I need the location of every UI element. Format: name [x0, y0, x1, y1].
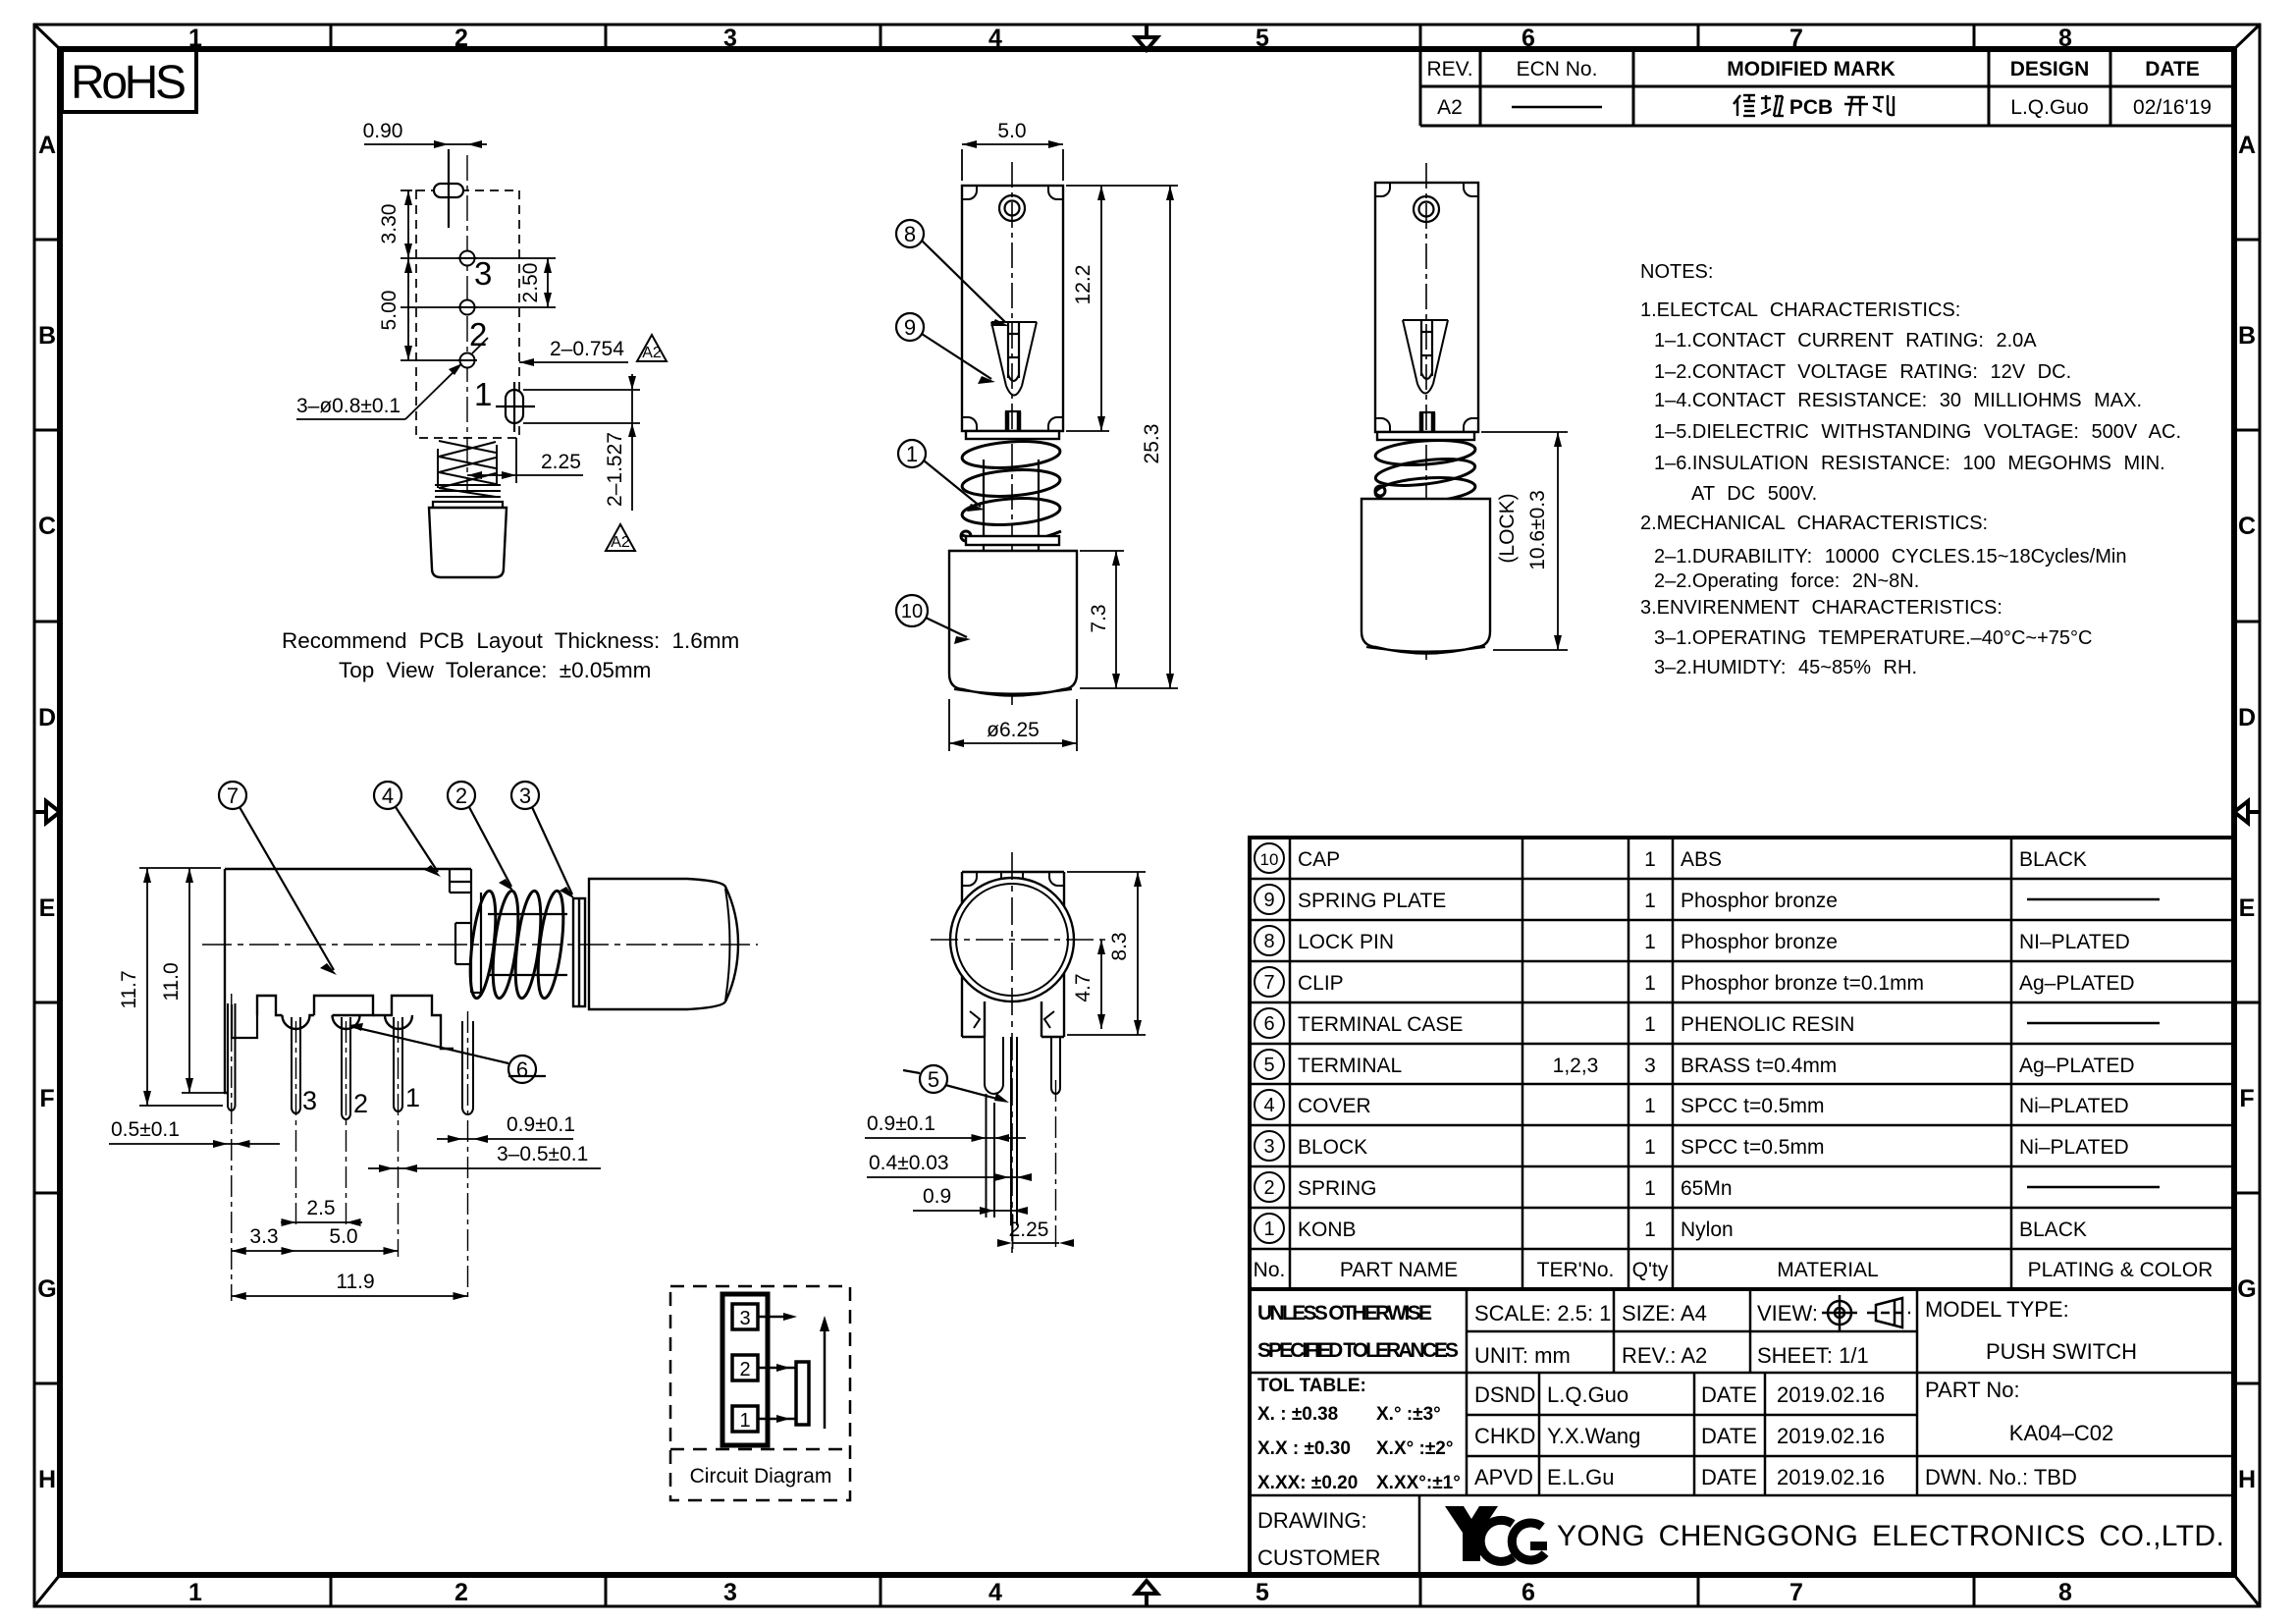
svg-text:7: 7 [1263, 972, 1274, 994]
title block grid [1250, 1289, 2234, 1575]
svg-text:6: 6 [1263, 1013, 1274, 1035]
svg-text:5: 5 [928, 1067, 939, 1092]
svg-text:F: F [2239, 1085, 2254, 1112]
svg-text:Phosphor bronze: Phosphor bronze [1681, 890, 1838, 912]
svg-text:5: 5 [1263, 1055, 1274, 1076]
view1 knob collar [433, 502, 503, 508]
svg-text:1–1.CONTACT CURRENT RATING:: 1–1.CONTACT CURRENT RATING: 2.0A [1654, 330, 2037, 352]
svg-text:3.3: 3.3 [249, 1225, 278, 1248]
svg-text:DATE: DATE [2145, 58, 2200, 81]
revision row modified mark CJK 修改PCB开孔 [1734, 95, 1894, 116]
svg-text:MODIFIED MARK: MODIFIED MARK [1727, 58, 1896, 81]
svg-text:2.50: 2.50 [519, 263, 542, 303]
svg-text:E.L.Gu: E.L.Gu [1547, 1465, 1614, 1489]
svg-text:APVD: APVD [1474, 1465, 1533, 1489]
border column ticks bottom [331, 1575, 1974, 1606]
dim 2.25 [467, 438, 583, 483]
svg-text:COVER: COVER [1298, 1095, 1371, 1117]
svg-text:NOTES:: NOTES: [1640, 261, 1713, 283]
svg-text:TOL TABLE:: TOL TABLE: [1257, 1376, 1366, 1396]
svg-text:TERMINAL: TERMINAL [1298, 1055, 1402, 1077]
border row letters right [2237, 132, 2256, 1493]
dim 0.9 bottom pin [865, 1134, 1026, 1142]
svg-text:AT DC 500V.: AT DC 500V. [1691, 483, 1817, 505]
coil spring view2 [961, 439, 1061, 543]
bottom stem tab view3 [1419, 412, 1435, 432]
bottom washer plate view2 [966, 536, 1059, 545]
svg-text:A2: A2 [1437, 96, 1463, 119]
svg-text:9: 9 [1263, 890, 1274, 911]
dim 0.90 [364, 140, 487, 148]
revision table grid [1420, 49, 2234, 126]
side pin labels [302, 1083, 420, 1118]
svg-text:2: 2 [1263, 1177, 1274, 1199]
svg-text:8: 8 [904, 222, 916, 246]
callout 6 terminal case [348, 1023, 546, 1083]
svg-text:2: 2 [353, 1089, 368, 1118]
bottom view frame [962, 872, 1064, 1037]
circuit diagram wire from terminal 1 [758, 1415, 796, 1423]
callout 1 knob [898, 440, 985, 512]
svg-text:SHEET: 1/1: SHEET: 1/1 [1757, 1343, 1869, 1368]
svg-text:RoHS: RoHS [71, 57, 187, 109]
svg-text:C: C [38, 513, 56, 540]
hole 3 [457, 251, 477, 266]
BOM rows text [1254, 848, 2214, 1281]
svg-text:3–2.HUMIDTY: 45~85% RH.: 3–2.HUMIDTY: 45~85% RH. [1654, 657, 1917, 678]
svg-text:3–ø0.8±0.1: 3–ø0.8±0.1 [296, 395, 400, 417]
border column numbers bottom [188, 1579, 2072, 1606]
svg-text:DSND: DSND [1474, 1382, 1535, 1407]
RoHS mark box [62, 49, 196, 112]
BOM plating blank dashes [2027, 899, 2160, 1187]
border row ticks left [34, 240, 60, 1383]
clip window [455, 923, 471, 964]
bottom view left pin [985, 1037, 1003, 1218]
BOM circled item numbers [1255, 843, 1284, 1243]
side washer block [573, 898, 585, 1006]
svg-text:C: C [2238, 513, 2256, 540]
svg-text:NI–PLATED: NI–PLATED [2019, 931, 2130, 953]
svg-text:4.7: 4.7 [1072, 973, 1095, 1001]
svg-text:2019.02.16: 2019.02.16 [1777, 1465, 1885, 1489]
view1 spring [435, 441, 501, 497]
dim 2-1.527 [523, 374, 640, 511]
svg-text:2: 2 [454, 1579, 468, 1606]
svg-text:1: 1 [1644, 1218, 1656, 1241]
svg-text:(LOCK): (LOCK) [1496, 493, 1519, 563]
svg-text:2: 2 [454, 25, 468, 52]
svg-text:D: D [38, 704, 56, 731]
cap view3 [1362, 499, 1490, 654]
BOM table grid [1250, 838, 2234, 1289]
revision row A2 [1437, 96, 1463, 119]
svg-text:MATERIAL: MATERIAL [1777, 1259, 1878, 1281]
svg-text:Ni–PLATED: Ni–PLATED [2019, 1136, 2129, 1159]
svg-text:1: 1 [1644, 848, 1656, 871]
svg-text:YONG CHENGGONG ELECTRONICS CO.: YONG CHENGGONG ELECTRONICS CO.,LTD. [1557, 1520, 2224, 1552]
svg-text:7: 7 [1789, 25, 1803, 52]
dim 0.9 lower [913, 1207, 1028, 1215]
callout 7 clip [219, 782, 337, 975]
border center mark bottom [1136, 1581, 1157, 1606]
svg-text:A2: A2 [611, 534, 630, 551]
svg-text:3: 3 [739, 1308, 750, 1329]
knob shaft view2 [984, 460, 1039, 536]
circuit diagram dashed box [670, 1286, 850, 1500]
svg-text:1: 1 [906, 442, 918, 466]
title block row1 text [1257, 1297, 2137, 1368]
svg-text:L.Q.Guo: L.Q.Guo [1547, 1382, 1629, 1407]
svg-text:X.XX°:±1°: X.XX°:±1° [1376, 1473, 1461, 1493]
svg-text:SPCC t=0.5mm: SPCC t=0.5mm [1681, 1095, 1824, 1117]
terminal pin 2 [342, 1017, 350, 1119]
lock pin slot view2 [1008, 322, 1019, 381]
svg-text:X.X : ±0.30: X.X : ±0.30 [1257, 1438, 1351, 1459]
left thin pin [228, 1003, 236, 1110]
svg-text:BRASS t=0.4mm: BRASS t=0.4mm [1681, 1055, 1837, 1077]
pilot hole view3 [1414, 196, 1439, 222]
svg-text:2.MECHANICAL CHARACTERISTICS:: 2.MECHANICAL CHARACTERISTICS: [1640, 513, 1988, 534]
callout 4 cover [374, 782, 441, 877]
callout 10 cap [896, 595, 971, 644]
svg-text:BLACK: BLACK [2019, 1218, 2087, 1241]
dim 0.9 right leg [437, 1135, 573, 1143]
dim 3.3 [232, 1247, 296, 1255]
svg-text:E: E [2239, 894, 2256, 922]
svg-text:8.3: 8.3 [1108, 932, 1131, 960]
svg-text:D: D [2238, 704, 2256, 731]
svg-text:5.00: 5.00 [378, 291, 400, 331]
svg-text:11.7: 11.7 [118, 970, 140, 1008]
char 修 [1734, 95, 1755, 116]
view1 cap [429, 508, 507, 577]
svg-text:REV.: A2: REV.: A2 [1622, 1343, 1707, 1368]
svg-text:B: B [38, 322, 56, 350]
svg-text:4: 4 [988, 25, 1002, 52]
revision row date [2133, 96, 2212, 119]
bottom view circle [950, 878, 1074, 1001]
svg-text:CAP: CAP [1298, 848, 1340, 871]
svg-text:SCALE: 2.5: 1: SCALE: 2.5: 1 [1474, 1301, 1611, 1326]
svg-text:Circuit Diagram: Circuit Diagram [690, 1465, 832, 1488]
circuit diagram caption [690, 1465, 832, 1488]
dim 0.4 [867, 1173, 1032, 1181]
dim 8.3 [1067, 872, 1146, 1035]
svg-text:Ag–PLATED: Ag–PLATED [2019, 1055, 2135, 1077]
svg-text:REV.: REV. [1426, 58, 1472, 81]
border row ticks right [2234, 240, 2260, 1383]
bottom view top slot [962, 872, 1064, 886]
svg-text:CUSTOMER: CUSTOMER [1257, 1545, 1381, 1570]
callout 8 lock pin [896, 220, 1009, 326]
svg-text:2.25: 2.25 [1009, 1218, 1049, 1241]
svg-text:8: 8 [1263, 931, 1274, 952]
circuit diagram actuation arrow [820, 1316, 829, 1429]
svg-text:PUSH SWITCH: PUSH SWITCH [1986, 1339, 2137, 1364]
terminal pin 1 [394, 1017, 402, 1111]
svg-text:1: 1 [1644, 890, 1656, 912]
svg-text:TER'No.: TER'No. [1537, 1259, 1615, 1281]
svg-text:3.30: 3.30 [378, 204, 400, 244]
bottom view right pin [1051, 1037, 1060, 1094]
svg-text:1.ELECTCAL CHARACTERISTICS:: 1.ELECTCAL CHARACTERISTICS: [1640, 299, 1960, 321]
clip right leg [462, 1021, 473, 1114]
svg-text:VIEW:: VIEW: [1757, 1301, 1818, 1326]
svg-text:H: H [38, 1466, 56, 1493]
svg-text:3: 3 [723, 25, 737, 52]
svg-text:PART No:: PART No: [1925, 1378, 2020, 1402]
svg-text:PLATING & COLOR: PLATING & COLOR [2028, 1259, 2214, 1281]
PCB centerline [466, 155, 468, 491]
svg-text:3–0.5±0.1: 3–0.5±0.1 [497, 1143, 588, 1165]
svg-text:5.0: 5.0 [997, 120, 1026, 142]
svg-text:3: 3 [519, 784, 531, 808]
cover top tab [450, 869, 471, 893]
svg-text:11.0: 11.0 [160, 962, 183, 1001]
svg-text:A2: A2 [642, 345, 662, 361]
border column ticks top [331, 25, 1974, 49]
svg-text:BLOCK: BLOCK [1298, 1136, 1367, 1159]
border center mark right [2234, 801, 2260, 823]
svg-text:7: 7 [227, 784, 239, 808]
dim 5.0 side [296, 1247, 399, 1255]
svg-text:6: 6 [516, 1057, 528, 1082]
char 改 [1761, 95, 1784, 116]
svg-text:1: 1 [1644, 1013, 1656, 1036]
svg-text:0.9: 0.9 [923, 1185, 951, 1208]
body case view3 [1375, 183, 1478, 432]
svg-text:1: 1 [1644, 931, 1656, 953]
dim 25.3 [1080, 186, 1178, 688]
svg-text:A: A [2238, 132, 2256, 159]
body corner notches view2 [962, 186, 1063, 431]
svg-text:E: E [39, 894, 56, 922]
circuit diagram terminal 3 [732, 1304, 758, 1329]
svg-text:X.XX: ±0.20: X.XX: ±0.20 [1257, 1473, 1358, 1493]
svg-text:1: 1 [1644, 972, 1656, 995]
dim 11.9 [232, 1292, 468, 1300]
hole 2 label tick [472, 338, 488, 353]
PCB note text [282, 628, 739, 682]
svg-text:1–6.INSULATION RESISTANCE: 1: 1–6.INSULATION RESISTANCE: 100 MEGOHMS M… [1654, 453, 2165, 474]
svg-text:0.4±0.03: 0.4±0.03 [869, 1152, 949, 1174]
svg-text:9: 9 [904, 315, 916, 340]
svg-text:X. : ±0.38: X. : ±0.38 [1257, 1404, 1338, 1425]
svg-text:3: 3 [1644, 1055, 1656, 1077]
top washer plate view3 [1377, 432, 1474, 440]
dim 2-0.754 [519, 358, 628, 366]
svg-text:H: H [2238, 1466, 2256, 1493]
svg-text:ø6.25: ø6.25 [987, 719, 1040, 741]
svg-text:MODEL TYPE:: MODEL TYPE: [1925, 1297, 2069, 1322]
svg-text:2: 2 [739, 1359, 750, 1380]
char 孔 [1873, 95, 1894, 115]
RoHS mark text [71, 57, 187, 109]
centerline view2 [1011, 162, 1013, 705]
title block tolerance table text [1257, 1376, 1461, 1493]
svg-text:0.9±0.1: 0.9±0.1 [507, 1113, 575, 1136]
svg-text:DWN. No.: TBD: DWN. No.: TBD [1925, 1465, 2077, 1489]
svg-text:6: 6 [1522, 25, 1535, 52]
svg-text:CHKD: CHKD [1474, 1424, 1535, 1448]
svg-text:2019.02.16: 2019.02.16 [1777, 1382, 1885, 1407]
dim 5.0 [962, 140, 1063, 181]
pad 1 slot [496, 382, 535, 432]
circuit diagram moving contact bar [796, 1362, 809, 1425]
svg-text:8: 8 [2058, 25, 2072, 52]
svg-text:2019.02.16: 2019.02.16 [1777, 1424, 1885, 1448]
svg-text:0.90: 0.90 [363, 120, 403, 142]
bottom view bent tabs [970, 1011, 1054, 1028]
svg-text:Phosphor bronze t=0.1mm: Phosphor bronze t=0.1mm [1681, 972, 1924, 995]
svg-text:DATE: DATE [1701, 1382, 1757, 1407]
svg-text:SPCC t=0.5mm: SPCC t=0.5mm [1681, 1136, 1824, 1159]
svg-text:No.: No. [1254, 1259, 1286, 1281]
dim 2.5 [281, 1218, 362, 1226]
border center mark left [34, 801, 60, 823]
svg-text:8: 8 [2058, 1579, 2072, 1606]
spring plate funnel view3 [1403, 320, 1448, 394]
dim 11.0 [182, 868, 224, 1093]
svg-text:0.9±0.1: 0.9±0.1 [867, 1112, 935, 1135]
circuit diagram wire from terminal 2 [758, 1364, 796, 1372]
callout 9 spring plate [896, 313, 995, 384]
svg-text:B: B [2238, 322, 2256, 350]
side body left edge [225, 869, 257, 1093]
svg-text:Recommend PCB Layout Thickness: Recommend PCB Layout Thickness: 1.6mm [282, 628, 739, 653]
svg-text:UNIT: mm: UNIT: mm [1474, 1343, 1571, 1368]
callout 5 terminal [903, 1065, 1009, 1103]
callout 3 block [511, 782, 575, 899]
spring plate funnel view2 [991, 322, 1037, 396]
svg-text:2–1.DURABILITY: 10000 CYCLES: 2–1.DURABILITY: 10000 CYCLES.15~18Cycles… [1654, 546, 2126, 568]
hole middle [457, 300, 477, 315]
svg-text:X.° :±3°: X.° :±3° [1376, 1404, 1441, 1425]
cap view2 [949, 551, 1077, 696]
svg-text:DESIGN: DESIGN [2010, 58, 2090, 81]
svg-text:0.5±0.1: 0.5±0.1 [111, 1118, 180, 1141]
svg-text:BLACK: BLACK [2019, 848, 2087, 871]
svg-text:2–0.754: 2–0.754 [550, 338, 624, 360]
callout 2 spring [448, 782, 514, 892]
svg-text:A: A [38, 132, 56, 159]
dim 2.50 [477, 258, 556, 307]
border column numbers top [188, 25, 2072, 52]
body corner notches view3 [1375, 183, 1478, 432]
side horizontal centerline [202, 944, 758, 946]
border center mark top [1136, 25, 1157, 50]
svg-text:DRAWING:: DRAWING: [1257, 1508, 1367, 1533]
svg-text:CLIP: CLIP [1298, 972, 1344, 995]
bottom stem tab view2 [1005, 411, 1021, 431]
svg-text:Ni–PLATED: Ni–PLATED [2019, 1095, 2129, 1117]
svg-text:1: 1 [1644, 1095, 1656, 1117]
slot hole top [434, 149, 463, 228]
dim 7.3 [1080, 551, 1124, 688]
terminal case crenellated bottom [257, 996, 454, 1049]
svg-text:Nylon: Nylon [1681, 1218, 1734, 1241]
body case view2 [962, 186, 1063, 431]
svg-text:2: 2 [455, 784, 467, 808]
circuit diagram terminal 1 [732, 1406, 758, 1432]
dim 3-0.5 pins [368, 1164, 601, 1172]
border row letters left [37, 132, 56, 1493]
svg-text:1–5.DIELECTRIC WITHSTANDING: 1–5.DIELECTRIC WITHSTANDING VOLTAGE: 500… [1654, 421, 2181, 443]
svg-text:5: 5 [1255, 1579, 1269, 1606]
svg-text:12.2: 12.2 [1072, 265, 1095, 305]
side body top edge [225, 868, 471, 870]
char 开 [1844, 97, 1868, 116]
svg-text:2–2.Operating force: 2N~8N.: 2–2.Operating force: 2N~8N. [1654, 570, 1919, 592]
svg-text:11.9: 11.9 [336, 1271, 374, 1293]
company name [1557, 1520, 2224, 1552]
svg-text:Phosphor bronze: Phosphor bronze [1681, 931, 1838, 953]
terminal pin 3 [292, 1017, 300, 1113]
svg-text:3: 3 [1263, 1136, 1274, 1158]
datum flag A2 upper [637, 335, 667, 361]
svg-text:SPRING: SPRING [1298, 1177, 1377, 1200]
leader 3-d0.8 [296, 363, 462, 419]
svg-text:G: G [37, 1275, 56, 1303]
svg-text:PART NAME: PART NAME [1340, 1259, 1458, 1281]
svg-text:2.25: 2.25 [541, 451, 581, 473]
circuit diagram wire from terminal 3 [758, 1313, 797, 1321]
dim 3.30 / 5.00 chain [400, 190, 457, 360]
svg-text:1: 1 [739, 1410, 750, 1432]
svg-text:7.3: 7.3 [1088, 604, 1110, 632]
dim 11.7 [139, 868, 223, 1106]
svg-text:4: 4 [1263, 1095, 1274, 1116]
svg-text:3: 3 [474, 255, 492, 292]
dim 0.5 left pin [109, 1140, 280, 1148]
svg-text:3: 3 [302, 1086, 317, 1115]
svg-text:1,2,3: 1,2,3 [1553, 1055, 1599, 1077]
svg-text:1: 1 [188, 1579, 202, 1606]
bottom view center pin [1011, 1037, 1017, 1225]
svg-text:02/16'19: 02/16'19 [2133, 96, 2212, 119]
svg-text:LOCK PIN: LOCK PIN [1298, 931, 1394, 953]
svg-text:3.ENVIRENMENT CHARACTERISTICS: 3.ENVIRENMENT CHARACTERISTICS: [1640, 597, 2002, 619]
pilot hole view2 [999, 195, 1025, 221]
svg-text:SIZE: A4: SIZE: A4 [1622, 1301, 1707, 1326]
svg-text:ECN No.: ECN No. [1517, 58, 1598, 81]
svg-text:PCB: PCB [1789, 96, 1833, 119]
title block signature rows [1257, 1378, 2113, 1570]
hole 2 [457, 353, 477, 368]
svg-text:4: 4 [382, 784, 394, 808]
svg-text:1–4.CONTACT RESISTANCE: 30: 1–4.CONTACT RESISTANCE: 30 MILLIOHMS MAX… [1654, 390, 2142, 411]
clip plate [471, 893, 481, 993]
lock pin slot view3 [1421, 320, 1432, 379]
svg-text:SPRING PLATE: SPRING PLATE [1298, 890, 1446, 912]
svg-text:25.3: 25.3 [1141, 424, 1163, 464]
svg-text:1: 1 [1644, 1177, 1656, 1200]
bottom view centerlines [931, 852, 1109, 1257]
svg-text:4: 4 [988, 1579, 1002, 1606]
svg-text:UNLESS OTHERWISE: UNLESS OTHERWISE [1257, 1302, 1432, 1325]
revision row ECN dash [1512, 106, 1602, 109]
svg-text:10: 10 [901, 601, 923, 623]
svg-text:2.5: 2.5 [306, 1197, 335, 1219]
YCG logo [1445, 1506, 1498, 1561]
svg-text:2–1.527: 2–1.527 [604, 432, 626, 507]
circuit diagram terminal 2 [732, 1355, 758, 1380]
dim 2.25 bottom [997, 1215, 1074, 1249]
svg-text:Q'ty: Q'ty [1632, 1259, 1669, 1281]
svg-text:10.6±0.3: 10.6±0.3 [1526, 490, 1549, 570]
svg-text:F: F [39, 1085, 54, 1112]
